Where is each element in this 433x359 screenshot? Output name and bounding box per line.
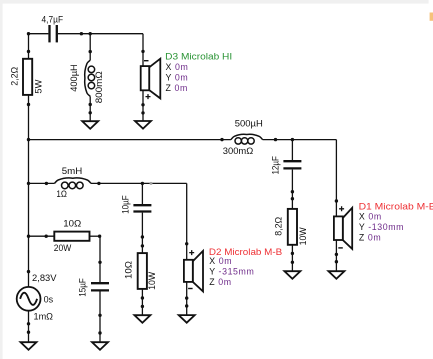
svg-text:Y 0m: Y 0m <box>166 73 189 83</box>
svg-text:D3 Microlab HI: D3 Microlab HI <box>165 52 232 62</box>
svg-text:400µH: 400µH <box>69 64 79 92</box>
node D1 top <box>335 199 338 202</box>
wire 10uF to 10ohm <box>141 213 143 254</box>
capacitor C3 10uF <box>120 195 151 214</box>
node low rail trunk junction <box>27 182 30 185</box>
wire 15uF to ground <box>99 292 101 343</box>
node C3 bottom <box>141 235 144 238</box>
wire resistor row left <box>29 235 55 237</box>
node C4 bottom <box>98 314 101 317</box>
wire mid rail right <box>263 139 337 141</box>
node 12uF junction <box>291 138 294 141</box>
node C2 bottom <box>291 190 294 193</box>
wire D3 branch top <box>142 34 144 66</box>
capacitor C4 15uF <box>78 278 109 297</box>
node R4 left <box>45 235 48 238</box>
svg-text:20W: 20W <box>54 243 72 253</box>
svg-text:1Ω: 1Ω <box>56 189 67 199</box>
node cap C1 right terminal <box>80 32 83 35</box>
node R3 top <box>141 244 144 247</box>
svg-text:Z 0m: Z 0m <box>209 277 231 287</box>
wire mid rail left <box>29 139 231 141</box>
node C4 top <box>98 261 101 264</box>
wire top rail right <box>58 33 143 35</box>
node R2 top <box>291 197 294 200</box>
node R3 ground node <box>141 305 144 308</box>
speaker D3 <box>141 59 161 99</box>
node L1 top <box>89 50 92 53</box>
node R2 ground node <box>291 261 294 264</box>
node R1 bottom <box>27 103 30 106</box>
resistor R3 10ohm 10W <box>124 253 158 290</box>
svg-text:10W: 10W <box>147 271 157 289</box>
wire trunk lower <box>28 310 30 342</box>
svg-text:0s: 0s <box>44 294 54 304</box>
node gray marker on low rail <box>150 182 153 185</box>
svg-text:10W: 10W <box>298 227 308 245</box>
ground under D3 <box>135 121 151 129</box>
svg-text:4,7µF: 4,7µF <box>42 14 64 24</box>
node mid rail trunk junction <box>27 138 30 141</box>
ground under C4 <box>92 342 108 350</box>
node R4 right <box>98 235 101 238</box>
label D2 <box>209 247 282 287</box>
node D1 ground node <box>335 260 338 263</box>
wire 400uH branch top <box>89 34 91 61</box>
node 400uH branch junction <box>89 32 92 35</box>
node V1 ground node <box>27 331 30 334</box>
svg-text:10Ω: 10Ω <box>124 261 134 279</box>
svg-text:5mH: 5mH <box>62 166 83 176</box>
wire 15uF top <box>99 236 101 282</box>
svg-text:Z 0m: Z 0m <box>359 233 381 243</box>
svg-text:10µF: 10µF <box>120 195 130 214</box>
node source top <box>27 270 30 273</box>
svg-text:2,83V: 2,83V <box>32 273 57 283</box>
label D1 <box>359 201 433 242</box>
wire D3 branch bottom <box>142 90 144 121</box>
node C4 ground node <box>98 331 101 334</box>
node V1 bottom <box>27 322 30 325</box>
svg-text:D1 Microlab M-B: D1 Microlab M-B <box>359 201 433 211</box>
node D2 ground node <box>185 304 188 307</box>
resistor R1 2.2ohm 5W <box>10 59 44 95</box>
wire D1 branch top <box>335 140 337 217</box>
svg-text:10Ω: 10Ω <box>63 219 81 229</box>
wire D1 branch bottom <box>335 240 337 271</box>
svg-text:Y -315mm: Y -315mm <box>209 267 254 277</box>
svg-text:800mΩ: 800mΩ <box>94 71 104 103</box>
wire 10uF top <box>141 183 143 204</box>
node L1 bottom <box>89 103 92 106</box>
svg-text:X 0m: X 0m <box>359 212 382 222</box>
svg-text:5W: 5W <box>34 79 44 94</box>
svg-text:X 0m: X 0m <box>209 256 232 266</box>
node L2 left <box>220 138 223 141</box>
svg-text:300mΩ: 300mΩ <box>223 146 254 156</box>
node L1 ground node <box>89 111 92 114</box>
speaker D2 <box>184 250 203 291</box>
node D3 bottom <box>141 103 144 106</box>
resistor R4 10ohm 20W <box>54 219 90 253</box>
ground under D1 <box>328 271 344 279</box>
ground under R3 <box>134 315 150 323</box>
wire 12uF top <box>291 140 293 161</box>
wire top rail left <box>29 33 49 35</box>
inductor L2 500uH 300mohm <box>223 119 263 156</box>
wire 400uH branch bottom <box>89 96 91 121</box>
svg-text:1mΩ: 1mΩ <box>34 311 54 321</box>
svg-text:12µF: 12µF <box>270 156 280 175</box>
wire 8.2ohm to ground <box>291 245 293 271</box>
node L3 right <box>97 182 100 185</box>
node resistor row trunk junction <box>27 235 30 238</box>
wire low rail left <box>29 182 55 184</box>
ground under R2 <box>284 271 300 279</box>
svg-text:X 0m: X 0m <box>166 62 189 72</box>
node L3 left <box>45 182 48 185</box>
wire trunk middle <box>28 95 30 287</box>
node R1 top <box>27 50 30 53</box>
node 10uF junction <box>141 182 144 185</box>
ground under L1 <box>82 121 98 129</box>
wire trunk upper <box>28 34 30 59</box>
wire low rail right <box>91 182 187 184</box>
wire 12uF to 8.2ohm <box>291 170 293 209</box>
wire D2 branch top <box>186 183 188 259</box>
capacitor C1 4.7uF <box>42 14 64 42</box>
node R2 bottom <box>291 252 294 255</box>
ground under V1 <box>21 342 37 350</box>
resistor R2 8.2ohm 10W <box>273 209 308 246</box>
voltage source V1 <box>17 273 57 321</box>
wire D2 branch bottom <box>186 282 188 315</box>
svg-text:Y -130mm: Y -130mm <box>359 222 404 232</box>
ground under D2 <box>179 315 195 323</box>
speaker D1 <box>334 206 352 249</box>
inductor L3 5mH 1ohm <box>55 166 92 199</box>
svg-text:15µF: 15µF <box>78 278 88 297</box>
svg-text:8,2Ω: 8,2Ω <box>273 217 283 236</box>
wire 10ohm to ground <box>141 289 143 315</box>
capacitor C2 12uF <box>270 156 301 175</box>
svg-text:500µH: 500µH <box>235 119 263 129</box>
node L2 right <box>274 138 277 141</box>
wire resistor row right <box>90 235 101 237</box>
node D3 ground node <box>141 111 144 114</box>
node R3 bottom <box>141 296 144 299</box>
node top-left corner <box>27 32 30 35</box>
inductor L1 400uH 800mohm <box>69 60 104 103</box>
svg-text:Z 0m: Z 0m <box>166 83 188 93</box>
node D2 bottom <box>185 296 188 299</box>
node D2 top <box>185 242 188 245</box>
node D3 top <box>141 50 144 53</box>
svg-text:2,2Ω: 2,2Ω <box>10 67 20 86</box>
label D3 <box>165 52 232 94</box>
node D1 bottom <box>335 253 338 256</box>
